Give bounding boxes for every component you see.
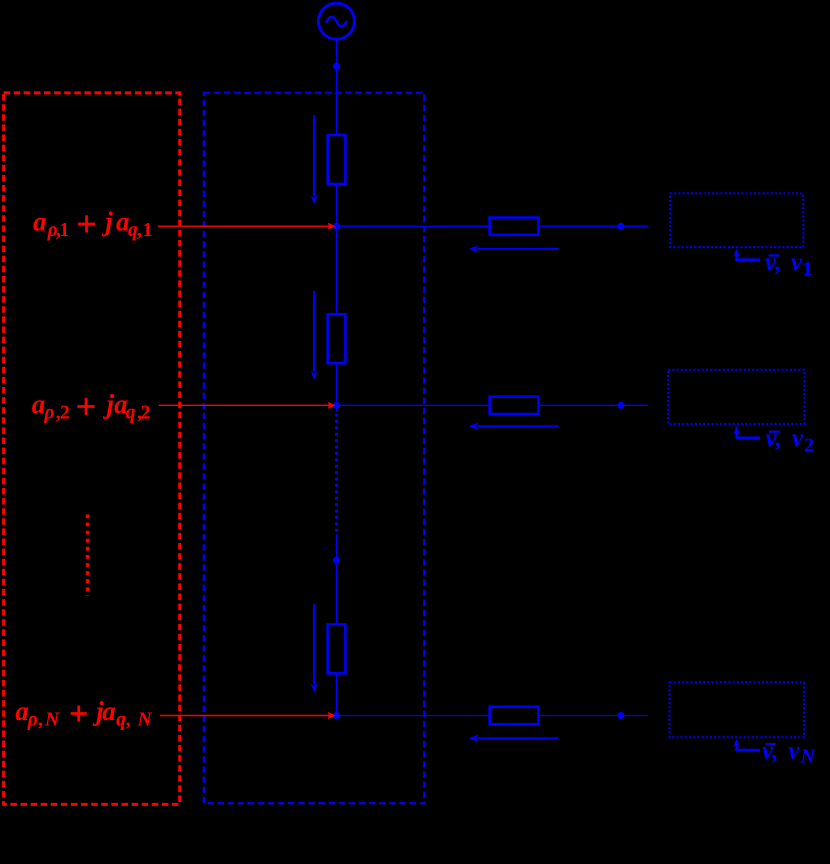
wire R1 to node 1 <box>336 185 338 314</box>
svg-text:1: 1 <box>60 220 70 241</box>
wire Rb2 to end <box>540 404 649 406</box>
wire RbN to end <box>540 715 649 717</box>
node tap 1 <box>617 223 624 230</box>
svg-text:ρ: ρ <box>27 709 38 730</box>
wire node1 to Rb1 <box>337 225 490 227</box>
svg-text:2: 2 <box>141 402 151 423</box>
resistor R1 <box>328 135 346 184</box>
mid node <box>333 557 340 564</box>
red label aN <box>15 696 152 730</box>
current arrow rowN <box>477 737 558 739</box>
svg-text:2: 2 <box>804 434 814 456</box>
svg-text:a: a <box>32 389 46 419</box>
svg-text:1: 1 <box>143 220 153 241</box>
svg-text:ρ: ρ <box>43 402 54 423</box>
svg-text:1: 1 <box>803 258 813 280</box>
wire R2 to node 2 <box>336 364 338 412</box>
svg-text:v,: v, <box>765 249 781 276</box>
red feed arrow row1 <box>158 225 329 227</box>
wire node2 to Rb2 <box>337 404 490 406</box>
dotted continuation wire <box>335 414 338 535</box>
svg-text:N: N <box>800 746 817 768</box>
wire RN to node N <box>336 674 338 715</box>
AC source sine symbol <box>326 17 346 26</box>
svg-text:,: , <box>126 709 131 730</box>
svg-text:v,: v, <box>762 738 778 765</box>
pointer arrow to boxN <box>737 741 760 750</box>
svg-text:v: v <box>788 738 800 765</box>
current arrow row2 <box>477 425 558 427</box>
current arrow I2 <box>313 291 315 372</box>
load box 1 <box>670 193 803 247</box>
wire Rb1 to end <box>540 225 649 227</box>
wire source to R1 <box>336 39 338 134</box>
resistor Rb1 <box>490 218 539 235</box>
node tap N <box>617 712 624 719</box>
svg-text:2: 2 <box>60 402 70 423</box>
svg-text:v: v <box>791 249 803 276</box>
svg-text:a: a <box>33 207 47 237</box>
node 1 <box>333 223 340 230</box>
red label a1 <box>33 207 152 241</box>
wire nodeN to RbN <box>337 715 490 717</box>
wire to mid node <box>336 534 338 624</box>
resistor RN <box>328 624 346 673</box>
AC source U1 circle <box>318 3 354 39</box>
load box 2 <box>668 370 804 424</box>
label vbar,v2 <box>766 425 815 456</box>
node N <box>333 712 340 719</box>
pointer arrow to box2 <box>737 429 760 438</box>
pointer arrow to box1 <box>737 251 760 260</box>
svg-text:q: q <box>116 709 126 730</box>
svg-text:a: a <box>15 696 28 726</box>
label vbar,vN <box>762 738 817 768</box>
red feed arrow rowN <box>160 715 329 717</box>
node tap 2 <box>617 402 624 409</box>
node top <box>333 63 340 70</box>
svg-text:N: N <box>44 709 60 730</box>
current arrow row1 <box>477 248 558 250</box>
ellipsis dots in red box <box>86 515 90 597</box>
current arrow I1 <box>313 115 315 196</box>
label vbar,v1 <box>765 249 813 280</box>
svg-text:N: N <box>137 709 153 730</box>
resistor Rb2 <box>490 397 539 414</box>
current arrow IN <box>313 604 315 685</box>
svg-text:v,: v, <box>766 425 782 452</box>
red label a2 <box>32 389 151 423</box>
red dashed box (sources group) <box>4 93 180 805</box>
resistor RbN <box>490 707 539 724</box>
red feed arrow row2 <box>159 404 329 406</box>
svg-text:v: v <box>792 425 804 452</box>
svg-text:,: , <box>38 709 43 730</box>
node 2 <box>333 402 340 409</box>
svg-text:q: q <box>126 402 136 423</box>
svg-text:,: , <box>137 220 142 241</box>
svg-text:a: a <box>102 696 116 726</box>
blue dashed box (line group) <box>204 93 424 804</box>
load box N <box>670 682 805 737</box>
resistor R2 <box>328 314 346 363</box>
